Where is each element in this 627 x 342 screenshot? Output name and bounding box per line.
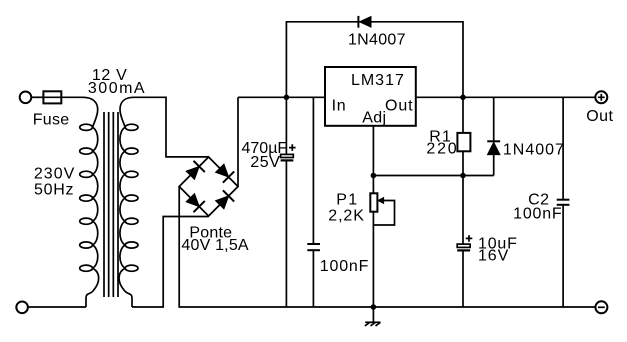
svg-text:1N4007: 1N4007	[503, 141, 565, 158]
svg-text:25V: 25V	[250, 154, 280, 171]
transformer T1 primary winding	[80, 97, 99, 307]
potentiometer wiper arrow	[373, 198, 394, 225]
svg-text:1N4007: 1N4007	[348, 31, 406, 48]
capacitor 100nF input	[307, 97, 320, 307]
node junction R1 top	[460, 95, 466, 101]
wire bridge + output up to main rail	[237, 97, 239, 186]
ground symbol	[365, 307, 381, 326]
transformer T1 secondary winding	[119, 97, 138, 307]
svg-text:16V: 16V	[478, 248, 509, 265]
input terminal top-left	[20, 92, 32, 104]
wire main rail to LM317 In	[238, 96, 325, 98]
wire top feedback rail left	[286, 22, 463, 98]
svg-text:Out: Out	[385, 98, 414, 115]
wire ground rail	[179, 187, 595, 308]
node junction 470uF top	[284, 95, 290, 101]
svg-text:100nF: 100nF	[513, 206, 562, 223]
node junction ground	[371, 304, 377, 310]
node junction Adj	[371, 173, 377, 179]
capacitor 10uF	[457, 176, 470, 308]
wire Adj net horizontal	[373, 175, 493, 177]
bridge diode D-BR	[216, 190, 235, 209]
bridge diode D-BL	[186, 194, 205, 213]
capacitor C2 100nF	[557, 97, 570, 307]
wire secondary bottom to bridge	[132, 217, 209, 308]
diode D1 1N4007 top	[358, 16, 371, 28]
bridge rectifier B1 diamond	[179, 157, 238, 216]
wire	[61, 96, 83, 98]
wire Adj pin down	[372, 126, 374, 194]
bridge diode D-TR	[216, 164, 235, 183]
output terminal plus	[595, 91, 607, 103]
svg-text:P1: P1	[336, 192, 358, 209]
svg-text:100nF: 100nF	[320, 258, 369, 275]
bridge diode D-TL	[186, 161, 205, 180]
node junction R1 bottom	[460, 173, 466, 179]
svg-text:50Hz: 50Hz	[34, 182, 74, 199]
wire primary bottom to terminal	[28, 306, 86, 308]
svg-text:300mA: 300mA	[88, 80, 146, 97]
svg-text:Out: Out	[586, 108, 613, 125]
resistor R1	[457, 97, 470, 175]
svg-text:230V: 230V	[34, 165, 75, 182]
transformer core	[104, 112, 118, 297]
svg-text:2,2K: 2,2K	[328, 208, 365, 225]
output terminal minus	[595, 301, 607, 313]
wire secondary top to bridge	[134, 97, 209, 157]
capacitor 470uF	[281, 97, 294, 307]
svg-text:LM317: LM317	[351, 72, 405, 89]
wire LM317 Out to output rail	[416, 96, 596, 98]
regulator U1 LM317 box	[325, 67, 416, 126]
fuse F1	[43, 91, 61, 103]
svg-text:Adj: Adj	[362, 110, 386, 127]
svg-text:Fuse: Fuse	[33, 111, 70, 128]
svg-text:In: In	[332, 98, 347, 115]
wire	[31, 96, 43, 98]
plus sign 10uF	[466, 235, 473, 242]
svg-text:220: 220	[426, 141, 458, 158]
diode D2 1N4007	[487, 97, 500, 175]
svg-text:40V 1,5A: 40V 1,5A	[181, 237, 249, 254]
potentiometer P1	[370, 193, 377, 307]
plus sign 470uF	[289, 144, 296, 151]
input terminal bottom-left	[16, 302, 28, 314]
